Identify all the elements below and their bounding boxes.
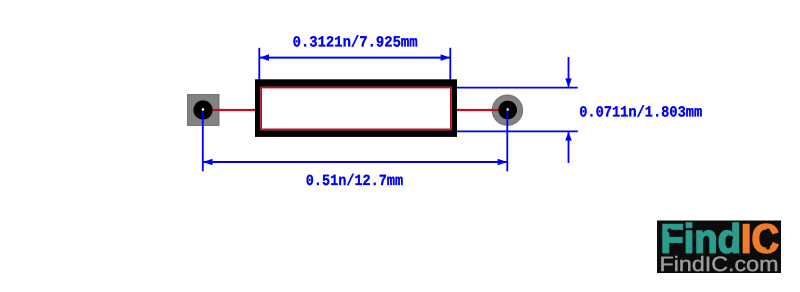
FindIC logo background — [657, 221, 781, 274]
pad P1 center mark — [202, 108, 205, 111]
pad P1 drill (black circle) — [193, 100, 212, 119]
extension line right (body width dim) — [449, 48, 451, 87]
pad P2 drill (black circle) — [498, 101, 517, 120]
extension line left (body width dim) — [258, 48, 260, 87]
pad P2 (right round pad) — [492, 95, 522, 125]
resistor body outline (black) — [255, 79, 457, 137]
FindIC logo trace dot on C bottom — [766, 245, 770, 249]
dimension line upper segment (body height dim) — [568, 57, 570, 88]
extension line right (overall length dim) — [506, 110, 508, 171]
svg-text:0.51n/12.7mm: 0.51n/12.7mm — [306, 172, 403, 190]
arrowhead down (body height dim) — [565, 78, 571, 87]
dimension line lower segment (body height dim) — [568, 131, 570, 163]
lead wire left — [203, 109, 258, 111]
FindIC logo trace dot on n — [703, 241, 707, 245]
pad P2 center mark — [506, 108, 509, 111]
resistor body silkscreen (red rectangle) — [261, 88, 451, 130]
FindIC logo trace line on F — [670, 230, 681, 232]
arrowhead left (overall length dim) — [203, 159, 213, 166]
svg-text:0.3121n/7.925mm: 0.3121n/7.925mm — [293, 33, 418, 51]
extension line left (overall length dim) — [202, 110, 204, 171]
extension line bottom (body height dim) — [452, 130, 578, 132]
FindIC logo trace dot on C top — [766, 229, 770, 233]
lead wire right — [452, 109, 509, 111]
arrowhead right (body width dim) — [441, 54, 451, 61]
extension line top (body height dim) — [452, 87, 578, 89]
FindIC logo trace dot on F — [667, 229, 671, 233]
svg-text:FindIC.com: FindIC.com — [660, 253, 779, 276]
arrowhead right (overall length dim) — [498, 159, 508, 166]
arrowhead left (body width dim) — [259, 54, 269, 61]
dimension line body width — [259, 57, 450, 59]
pad P1 (left square pad) — [188, 95, 220, 126]
resistor body interior — [260, 87, 452, 131]
svg-text:0.0711n/1.803mm: 0.0711n/1.803mm — [579, 104, 702, 122]
dimension line overall length — [203, 161, 508, 163]
arrowhead up (body height dim) — [565, 131, 571, 140]
FindIC logo trace dot on d — [729, 236, 733, 240]
